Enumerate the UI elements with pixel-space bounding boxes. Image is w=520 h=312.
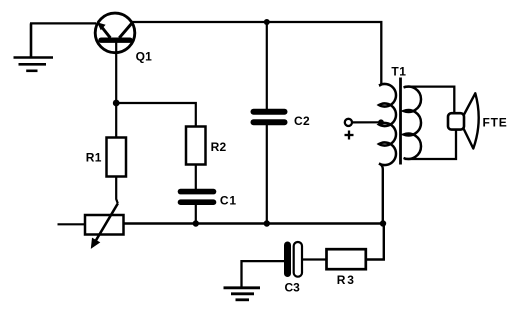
svg-text:FTE: FTE — [483, 115, 508, 129]
transformer T1 core — [399, 78, 402, 165]
junction dot: center tap — [378, 119, 384, 125]
wire: C1 to bottom rail — [195, 204, 197, 224]
svg-text:R3: R3 — [337, 273, 356, 287]
wire: + terminal to T1 center tap — [352, 121, 381, 123]
wire: node A to R1 top — [115, 103, 117, 138]
svg-text:C2: C2 — [294, 114, 310, 128]
potentiometer wiper arrow — [91, 204, 118, 249]
junction dot: top rail / C2 — [264, 19, 270, 25]
capacitor C2 — [254, 112, 285, 123]
wire: R3 to C3 — [302, 258, 327, 260]
junction dot: C2 / bottom rail — [264, 220, 270, 226]
wire: bottom rail — [124, 222, 385, 224]
capacitor C3 positive plate — [294, 242, 302, 277]
potentiometer body — [85, 215, 124, 235]
resistor R1 — [107, 138, 127, 177]
capacitor C3 negative plate — [284, 245, 291, 274]
junction dot: T1 / bottom rail — [380, 220, 386, 226]
wire: R1 bottom to wiper — [116, 177, 118, 204]
svg-text:Q1: Q1 — [136, 50, 153, 64]
svg-text:C3: C3 — [285, 281, 301, 295]
speaker driver — [448, 113, 464, 129]
wire: secondary bottom to speaker — [405, 130, 457, 159]
wire: C2 to bottom rail — [266, 125, 268, 224]
svg-text:C1: C1 — [220, 193, 237, 207]
svg-text:R1: R1 — [86, 151, 102, 165]
wire: top rail to C2 — [266, 22, 268, 109]
speaker cone — [464, 93, 479, 148]
wire: pot left stub — [58, 223, 86, 225]
transformer T1 primary winding — [379, 84, 396, 165]
wire: bottom rail down to R3 — [366, 224, 384, 260]
svg-text:R2: R2 — [211, 140, 227, 154]
wire: R2 bottom to C1 — [195, 165, 197, 191]
ground (bottom) — [224, 288, 261, 300]
capacitor C1 — [181, 192, 214, 203]
plus sign — [345, 131, 354, 140]
junction dot: C1 / bottom rail — [193, 220, 199, 226]
wire: Q1 collector to T1 primary top — [131, 22, 381, 86]
node A junction dot — [113, 100, 120, 107]
wire: T1 primary bottom to bottom rail — [379, 164, 383, 224]
svg-text:T1: T1 — [391, 65, 406, 79]
resistor R2 — [186, 127, 206, 165]
wire: secondary top to speaker — [405, 87, 455, 113]
wire: C3 to ground — [242, 261, 285, 287]
ground (top left) — [14, 23, 54, 70]
wire: Q1 base down to node A — [115, 42, 117, 103]
resistor R3 — [327, 249, 366, 269]
wire: ground to Q1 emitter — [30, 22, 96, 24]
transistor Q1 — [95, 13, 135, 53]
transformer T1 secondary winding — [404, 87, 422, 159]
battery + terminal circle — [345, 119, 352, 126]
wire: node A to R2 top — [116, 103, 196, 127]
